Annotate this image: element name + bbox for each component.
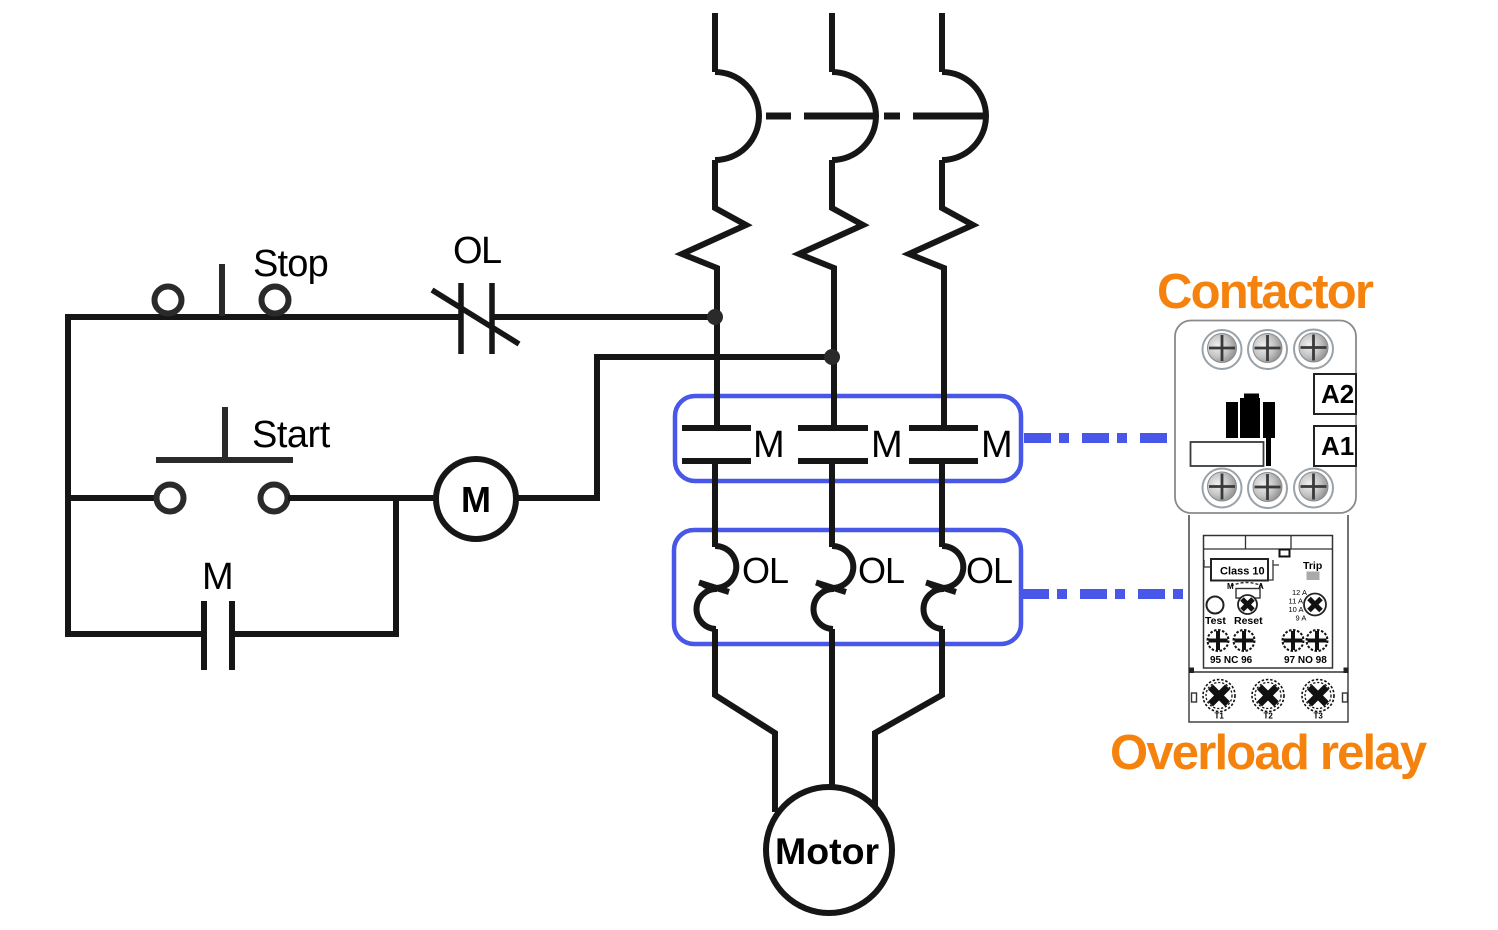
contactor screw bottom 3 bbox=[1294, 469, 1333, 508]
breaker arc L3 bbox=[942, 72, 986, 160]
contactor screw top 2 bbox=[1248, 330, 1287, 369]
contactor logo bar 2 bbox=[1240, 398, 1260, 438]
svg-text:95 NC 96: 95 NC 96 bbox=[1210, 655, 1253, 666]
contactor screw bottom 1 bbox=[1203, 469, 1242, 508]
svg-text:A2: A2 bbox=[1321, 379, 1354, 409]
overload box (blue) bbox=[674, 530, 1021, 644]
breaker linkage dashed line segment 4 bbox=[913, 113, 986, 120]
svg-text:Reset: Reset bbox=[1234, 615, 1263, 627]
svg-text:97 NO 98: 97 NO 98 bbox=[1284, 655, 1327, 666]
breaker linkage dashed line segment 3 bbox=[884, 113, 900, 120]
phase L1 top wire bbox=[712, 13, 718, 72]
wire rung2 left segment bbox=[68, 495, 156, 501]
Class 10 box bbox=[1211, 559, 1268, 581]
svg-text:M: M bbox=[753, 424, 785, 466]
svg-text:Test: Test bbox=[1205, 615, 1226, 627]
contact OL NC right bar bbox=[489, 283, 495, 354]
terminal box A1 bbox=[1314, 426, 1356, 466]
motor circle bbox=[766, 787, 892, 913]
contact M2 bottom bar bbox=[798, 458, 868, 464]
contact M3 top bar bbox=[909, 425, 978, 431]
relay divider end cap right bbox=[1344, 668, 1349, 674]
breaker heater zigzag L2 bbox=[799, 160, 863, 425]
heater OL1 tick bbox=[699, 583, 729, 593]
wire L2 between contact and OL bbox=[829, 461, 835, 547]
callout dash line overload bbox=[1022, 589, 1186, 599]
pushbutton Start plunger bbox=[222, 407, 228, 460]
mode selector box bbox=[1236, 589, 1260, 599]
pushbutton Stop plunger bbox=[219, 264, 225, 316]
wire rung1 left segment bbox=[65, 314, 461, 320]
wire L1 to motor bbox=[715, 629, 775, 812]
svg-text:Class 10: Class 10 bbox=[1220, 566, 1265, 578]
phase L3 top wire bbox=[939, 13, 945, 72]
side notch left bbox=[1192, 693, 1197, 702]
svg-text:OL: OL bbox=[966, 550, 1012, 591]
wire rung2 right segment bbox=[514, 357, 832, 498]
breaker arc L1 bbox=[715, 72, 759, 160]
Class 10 bracket left bbox=[1204, 560, 1211, 567]
terminal screw 97 bbox=[1283, 630, 1304, 651]
svg-text:M: M bbox=[461, 479, 491, 520]
svg-text:Overload relay: Overload relay bbox=[1110, 726, 1427, 780]
breaker linkage dashed line segment 1 bbox=[766, 113, 791, 120]
heater OL3 squiggle bbox=[930, 546, 963, 588]
svg-text:A1: A1 bbox=[1321, 431, 1354, 461]
svg-text:M: M bbox=[981, 424, 1013, 466]
svg-text:Motor: Motor bbox=[775, 830, 880, 872]
breaker arc L2 bbox=[832, 72, 876, 160]
pushbutton Stop terminal circle left bbox=[155, 287, 182, 314]
relay inner panel bbox=[1204, 536, 1333, 669]
contact M holding left bar bbox=[201, 601, 207, 670]
contactor logo bar 1 bbox=[1226, 402, 1238, 438]
pushbutton Stop terminal circle right bbox=[262, 287, 289, 314]
wire L3 to motor bbox=[875, 629, 942, 806]
relay top band divider vertical a bbox=[1245, 536, 1247, 550]
power terminal T3 bbox=[1302, 680, 1334, 712]
svg-text:Contactor: Contactor bbox=[1157, 265, 1374, 319]
breaker linkage dashed line segment 2 bbox=[804, 113, 876, 120]
wire rung1 right segment bbox=[492, 314, 715, 320]
node junction L1 control tap bbox=[707, 309, 723, 325]
wire L3 between contact and OL bbox=[939, 461, 945, 547]
pushbutton Start bar bbox=[156, 457, 293, 463]
svg-text:OL: OL bbox=[858, 550, 904, 591]
breaker heater zigzag L1 bbox=[682, 160, 746, 425]
relay small notch square bbox=[1280, 550, 1290, 557]
terminal screw 95 bbox=[1208, 630, 1229, 651]
contactor body bbox=[1175, 321, 1356, 514]
svg-text:T1: T1 bbox=[1215, 712, 1225, 721]
relay top band divider 1 bbox=[1204, 548, 1333, 550]
side notch right bbox=[1343, 693, 1348, 702]
mode arc bbox=[1231, 583, 1262, 587]
svg-text:9 A: 9 A bbox=[1296, 614, 1307, 623]
Class 10 bracket right bbox=[1268, 560, 1279, 580]
power terminal T1 bbox=[1203, 680, 1235, 712]
Reset screw bbox=[1238, 595, 1257, 614]
terminal screw 98 bbox=[1307, 630, 1328, 651]
wire rung2 middle segment bbox=[288, 495, 438, 501]
contactor screw top 1 bbox=[1203, 330, 1242, 369]
power terminal T2 bbox=[1252, 680, 1284, 712]
contact M2 top bar bbox=[798, 425, 868, 431]
wire rung3 left segment bbox=[68, 631, 204, 637]
contact OL NC left bar bbox=[458, 283, 464, 354]
contactor screw bottom 2 bbox=[1248, 469, 1287, 508]
terminal screw 96 bbox=[1234, 630, 1255, 651]
contact M3 bottom bar bbox=[909, 458, 978, 464]
heater OL2 tick bbox=[816, 583, 846, 593]
pushbutton Start terminal circle right bbox=[261, 485, 288, 512]
wire L2 to motor bbox=[829, 629, 835, 790]
amp dial bbox=[1304, 594, 1326, 616]
svg-text:M: M bbox=[202, 556, 234, 598]
svg-text:M: M bbox=[1227, 582, 1234, 591]
contact M1 bottom bar bbox=[682, 458, 751, 464]
coil M bbox=[436, 459, 516, 539]
svg-text:T3: T3 bbox=[1314, 712, 1324, 721]
heater OL3 tick bbox=[926, 583, 956, 593]
callout dash line contactor bbox=[1024, 433, 1169, 443]
svg-text:Start: Start bbox=[252, 414, 331, 456]
Test button bbox=[1207, 597, 1224, 614]
pushbutton Start terminal circle left bbox=[157, 485, 184, 512]
contactor logo bar 3 bbox=[1263, 402, 1275, 438]
svg-text:OL: OL bbox=[742, 550, 788, 591]
wire left rail bbox=[65, 314, 71, 637]
relay body bbox=[1189, 515, 1348, 722]
wire rung3 right segment bbox=[232, 498, 396, 634]
svg-text:OL: OL bbox=[453, 230, 501, 272]
relay divider end cap left bbox=[1189, 668, 1194, 674]
heater OL1 squiggle bbox=[703, 546, 736, 588]
contactor screw top 3 bbox=[1294, 330, 1333, 369]
svg-text:M: M bbox=[871, 424, 903, 466]
heater OL2 squiggle bbox=[820, 546, 853, 588]
contact OL NC slash bbox=[432, 290, 519, 344]
node junction L2 control tap bbox=[824, 349, 840, 365]
relay divider line bbox=[1189, 671, 1348, 673]
Trip indicator bbox=[1307, 572, 1320, 581]
svg-text:Trip: Trip bbox=[1303, 560, 1322, 572]
terminal box A2 bbox=[1314, 374, 1356, 414]
svg-text:T2: T2 bbox=[1264, 712, 1274, 721]
svg-text:Stop: Stop bbox=[253, 243, 328, 285]
contact M holding right bar bbox=[229, 601, 235, 670]
contactor logo descender bbox=[1266, 438, 1271, 466]
relay top band divider vertical b bbox=[1290, 536, 1292, 550]
breaker heater zigzag L3 bbox=[909, 160, 973, 425]
phase L2 top wire bbox=[829, 13, 835, 72]
contactor label window bbox=[1191, 442, 1264, 466]
contactor logo bar 2 notch bbox=[1244, 394, 1259, 400]
contact M1 top bar bbox=[682, 425, 751, 431]
contactor box (blue) bbox=[675, 396, 1021, 481]
wire L1 between contact and OL bbox=[712, 461, 718, 547]
